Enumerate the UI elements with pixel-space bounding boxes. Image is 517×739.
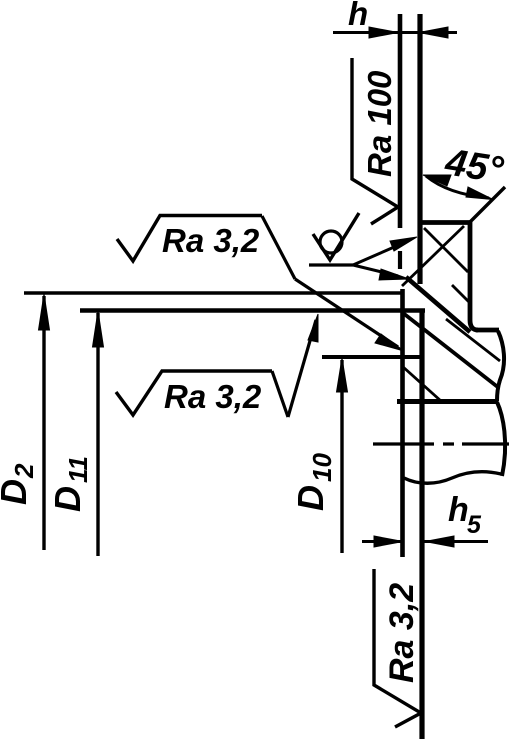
hatch lower band [402, 313, 500, 401]
wire tube left wall top [398, 14, 403, 228]
cone joint line [406, 277, 470, 332]
leader to tube wall [353, 241, 408, 265]
surface symbol Ra 3,2 upper [117, 216, 262, 262]
arrow h5 left [374, 536, 403, 547]
arrow D10 [337, 358, 348, 392]
leader to cone [353, 265, 398, 276]
label h5 [448, 491, 482, 539]
arrow D11 [93, 311, 104, 347]
svg-text:Ra 100: Ra 100 [361, 70, 398, 177]
arrow at cone [379, 269, 409, 280]
arrow D2 [39, 294, 50, 330]
label D10 [290, 453, 337, 511]
leader shelf of circle symbol [309, 263, 353, 266]
arrow h right [419, 27, 448, 38]
wire bore left wall [400, 289, 405, 557]
dimension D11 line [96, 313, 99, 556]
svg-text:2: 2 [9, 463, 39, 479]
svg-text:D: D [47, 486, 88, 512]
wire tube left wall dash [398, 251, 402, 269]
leader to bore [295, 279, 398, 347]
dimension D10 line [340, 360, 343, 553]
dimension h5 line [362, 540, 488, 543]
dimension D2 line [42, 296, 45, 550]
wavy break line [404, 472, 501, 484]
wire tube right wall top [417, 14, 422, 284]
hatch solder X box [402, 226, 468, 286]
svg-text:Ra 3,2: Ra 3,2 [383, 583, 421, 683]
hatch midband stub [452, 285, 469, 302]
flange step face [476, 328, 499, 333]
flange outer break edge upper [497, 331, 504, 401]
angle 45 arc [426, 176, 489, 198]
dimension h line [333, 31, 457, 34]
label D2 [0, 463, 39, 505]
node D11 surface line [80, 308, 425, 312]
label D11 [47, 456, 93, 512]
node D10 surface line [322, 355, 420, 359]
svg-text:Ra 3,2: Ra 3,2 [162, 222, 260, 259]
centerline axis [373, 442, 509, 445]
svg-text:h: h [348, 0, 368, 32]
surface symbol Ra 3,2 bottom [374, 569, 421, 727]
chamfer extension line [470, 187, 505, 222]
flange top face [418, 220, 472, 225]
svg-text:D: D [0, 479, 34, 505]
arrow h left [369, 27, 398, 38]
arrow at bore [375, 334, 404, 351]
arrow 45 left [423, 175, 451, 186]
surface symbol Ra 3,2 lower-left [116, 371, 272, 415]
node D2 surface line [24, 291, 403, 295]
flange outer break edge lower [497, 402, 505, 476]
svg-text:Ra 3,2: Ra 3,2 [164, 378, 262, 415]
arrow at D11 face [308, 314, 318, 342]
arrow 45 right [466, 187, 493, 200]
flange right face [470, 221, 478, 330]
svg-text:10: 10 [307, 453, 337, 482]
svg-text:D: D [290, 485, 331, 511]
surface symbol no-machining circle [320, 231, 342, 253]
flange bottom face [397, 399, 498, 404]
svg-text:5: 5 [467, 511, 482, 539]
leader slant lower [272, 371, 288, 417]
svg-text:h: h [448, 491, 469, 529]
leader to D11 face [288, 320, 316, 417]
arrow h5 right [425, 536, 454, 547]
wire bottom tube right wall [419, 311, 424, 739]
arrow at tube wall [390, 237, 417, 251]
surface symbol Ra 100 [352, 58, 398, 224]
svg-text:11: 11 [63, 456, 93, 483]
leader slant upper [262, 216, 295, 279]
